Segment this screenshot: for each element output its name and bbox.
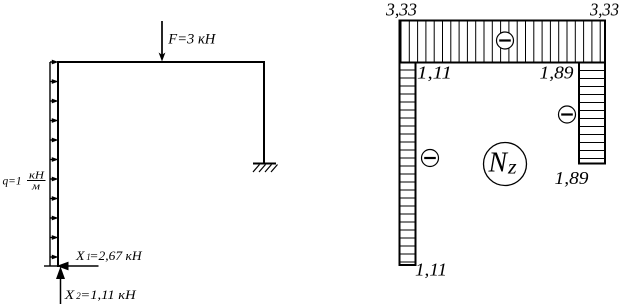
svg-text:q=1: q=1 (3, 176, 22, 188)
svg-text:X: X (64, 287, 76, 302)
Nz left column bar (1,11) with horizontal hatching (400, 63, 416, 266)
svg-text:м: м (31, 182, 41, 193)
label q=1 kN/m (3, 171, 46, 193)
svg-text:3,33: 3,33 (385, 0, 417, 20)
frame left column (57, 61, 59, 267)
distributed load bottom cap (44, 265, 58, 267)
Nz top bar (3,33) with vertical hatching (400, 21, 606, 63)
svg-text:1,11: 1,11 (415, 260, 447, 280)
label X1=2,67 kN (75, 248, 142, 263)
Nz diagram title circle (484, 143, 527, 186)
svg-text:3,33: 3,33 (589, 0, 619, 20)
svg-text:1,89: 1,89 (555, 168, 589, 188)
svg-text:X: X (75, 248, 86, 263)
frame right column (263, 62, 265, 163)
reaction X2 arrow (56, 267, 65, 304)
label X2=1,11 kN (64, 287, 137, 302)
frame top member (57, 61, 265, 63)
svg-text:1,11: 1,11 (417, 63, 452, 83)
svg-text:кН: кН (29, 171, 46, 182)
svg-text:=1,11 кН: =1,11 кН (80, 287, 136, 302)
reaction X1 arrow (57, 262, 99, 271)
force F arrow (159, 21, 166, 62)
distributed load q line (49, 62, 51, 266)
fixed support at right column base (253, 164, 278, 173)
svg-text:F=3 кН: F=3 кН (167, 32, 216, 48)
distributed load arrows (50, 60, 59, 260)
minus sign on right column bar (559, 106, 576, 123)
Nz right column bar (1,89) with horizontal hatching (579, 63, 605, 164)
svg-text:=2,67 кН: =2,67 кН (89, 248, 142, 263)
svg-text:1,89: 1,89 (540, 63, 574, 83)
svg-text:N: N (488, 146, 509, 178)
minus sign on top bar (497, 32, 514, 49)
minus sign on left column bar (422, 150, 439, 167)
svg-text:z: z (507, 156, 517, 178)
